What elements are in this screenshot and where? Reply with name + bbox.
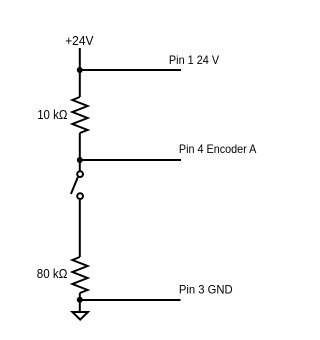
svg-text:Pin 1 24 V: Pin 1 24 V: [169, 53, 219, 67]
svg-text:80 kΩ: 80 kΩ: [37, 266, 68, 281]
svg-text:+24V: +24V: [65, 33, 94, 48]
svg-text:Pin 4 Encoder A: Pin 4 Encoder A: [179, 142, 257, 156]
svg-text:Pin 3 GND: Pin 3 GND: [179, 282, 233, 296]
svg-text:10 kΩ: 10 kΩ: [37, 107, 67, 122]
